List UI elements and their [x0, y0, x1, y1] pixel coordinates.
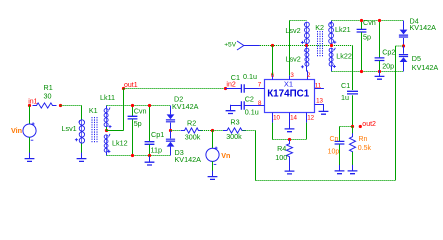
wire K2 upper bus [332, 20, 404, 22]
transformer K1 core [89, 106, 98, 142]
svg-text:3: 3 [290, 72, 294, 79]
svg-text:10p: 10p [328, 149, 340, 156]
ground at pin 13 [319, 105, 329, 114]
svg-text:KV142A: KV142A [172, 102, 199, 111]
svg-text:D5: D5 [412, 54, 421, 63]
svg-text:20p: 20p [382, 62, 394, 71]
capacitor Cp1 [145, 106, 165, 156]
varicap D5 [399, 46, 438, 72]
svg-text:10: 10 [273, 115, 280, 122]
ground under Vin [25, 153, 35, 162]
svg-text:7: 7 [258, 81, 262, 88]
wire to pin 3 [290, 21, 307, 76]
inductor Lsv2 lower [286, 46, 309, 76]
inductor Lk12 [104, 134, 127, 156]
node Cp1 top [148, 104, 151, 107]
svg-text:5p: 5p [134, 119, 142, 128]
pin 2 [307, 72, 311, 79]
wire Lsv1 to ground [81, 144, 83, 158]
svg-text:12: 12 [307, 115, 314, 122]
ground under Lsv1 [77, 153, 87, 162]
ground under Vn [208, 171, 218, 180]
svg-text:+5V: +5V [224, 41, 237, 48]
wire upper tank bus [107, 105, 171, 107]
svg-text:C1: C1 [231, 73, 240, 82]
capacitor C1 output [341, 46, 358, 127]
node D2 D3 junction [169, 129, 172, 132]
node pin6 tap [271, 44, 274, 47]
transformer K2 core [315, 23, 324, 57]
varicap D2 [166, 94, 199, 130]
wire R1 to Lsv1 [61, 106, 82, 120]
svg-text:KV142A: KV142A [412, 63, 439, 72]
svg-text:0.5k: 0.5k [358, 145, 372, 152]
svg-text:300k: 300k [185, 132, 201, 141]
svg-text:KV142A: KV142A [410, 23, 437, 32]
node out1 [122, 82, 138, 90]
svg-text:out2: out2 [362, 121, 376, 128]
svg-text:Lsv2: Lsv2 [286, 54, 301, 63]
pin 13 [315, 98, 324, 112]
ground under Rn [348, 165, 358, 174]
node K1 center tap [105, 127, 124, 132]
svg-text:X1: X1 [284, 81, 293, 88]
ground at C2 [226, 105, 236, 114]
pin 7 [258, 81, 265, 88]
pin 14 [290, 113, 298, 129]
node D4 D5 junction [402, 44, 405, 47]
svg-text:in1: in1 [28, 99, 37, 106]
svg-text:13: 13 [316, 98, 323, 105]
svg-text:Cvn: Cvn [363, 18, 376, 27]
svg-text:R3: R3 [230, 117, 239, 126]
resistor R1 [33, 83, 57, 108]
ground under Cp1 [145, 156, 155, 166]
ground under Cp2 [375, 70, 385, 79]
wire +5V bus [260, 45, 353, 47]
pin 6 [271, 72, 275, 79]
wire pin10 pin12 link [273, 139, 307, 141]
node K2 center tap [330, 44, 333, 47]
svg-text:Cn: Cn [330, 136, 339, 143]
svg-text:Cvn: Cvn [134, 107, 147, 116]
wire pin10 drop [272, 123, 274, 140]
inductor Lk11 [100, 93, 115, 128]
inductor Lsv1 [62, 120, 85, 144]
svg-text:1u: 1u [341, 93, 349, 102]
svg-text:5p: 5p [363, 33, 371, 42]
source Vn [206, 131, 230, 165]
node in1 [28, 99, 38, 108]
svg-text:11p: 11p [151, 145, 162, 154]
capacitor Cvn left [128, 106, 147, 156]
node R4 top [288, 138, 291, 141]
svg-text:out1: out1 [124, 82, 138, 89]
svg-text:Lk21: Lk21 [335, 25, 351, 34]
wire to pin 6 [272, 46, 274, 76]
wire Vin to ground [29, 137, 31, 157]
wire tuning frame [256, 46, 404, 181]
node R2 R3 junction [211, 129, 214, 132]
svg-text:Lsv2: Lsv2 [285, 26, 300, 35]
node out2 [351, 121, 376, 128]
svg-text:KV142A: KV142A [175, 155, 202, 164]
resistor R2 [171, 118, 213, 141]
svg-text:Lsv1: Lsv1 [62, 124, 77, 133]
svg-text:Lk12: Lk12 [112, 138, 128, 147]
source Vin [11, 106, 36, 141]
svg-text:R2: R2 [187, 118, 196, 127]
svg-text:0.1u: 0.1u [243, 72, 257, 81]
pin 8 [244, 100, 264, 107]
wire lower tank bus [107, 155, 171, 157]
capacitor Cp2 [375, 21, 396, 72]
node Cvn right bottom [360, 70, 363, 73]
inductor Lsv2 upper [285, 22, 309, 46]
node Cp1 bottom [148, 154, 151, 157]
wire Vn to ground [212, 161, 214, 176]
svg-text:0.1u: 0.1u [245, 108, 259, 117]
wire R3 drop [255, 131, 257, 181]
pin 11 [315, 82, 324, 89]
resistor R4 [275, 140, 292, 171]
varicap D4 [399, 16, 436, 46]
svg-text:Vn: Vn [221, 151, 230, 160]
port +5V [224, 41, 244, 50]
capacitor Cn [328, 127, 345, 171]
svg-text:30: 30 [44, 92, 52, 101]
node Cvn bottom [131, 154, 134, 157]
svg-text:Rn: Rn [359, 136, 368, 143]
inductor Lk21 [329, 21, 351, 44]
svg-text:Cp1: Cp1 [151, 130, 164, 139]
wire out1 vertical [123, 89, 125, 131]
svg-text:Lk11: Lk11 [100, 93, 115, 102]
wire +5V lead [244, 45, 260, 47]
svg-text:8: 8 [258, 100, 262, 107]
node in2 [224, 81, 236, 90]
pin 3 [290, 72, 295, 79]
svg-text:14: 14 [290, 115, 297, 122]
node Cvn top [131, 104, 134, 107]
node Cvn right top [360, 19, 363, 22]
resistor Rn [350, 127, 372, 171]
inductor Lk22 [329, 48, 352, 72]
ground under Cn [335, 165, 345, 174]
svg-text:К174ПС1: К174ПС1 [267, 88, 309, 99]
node Cp2 bottom [378, 70, 381, 73]
svg-text:100: 100 [275, 153, 287, 162]
svg-text:C2: C2 [245, 94, 254, 103]
svg-text:K1: K1 [89, 106, 98, 115]
resistor R3 [213, 117, 256, 140]
wire out2 branch [340, 126, 353, 128]
wire K2 lower bus [332, 71, 404, 73]
node Lsv2 tap [305, 44, 308, 47]
ground at pin 14 [285, 123, 295, 132]
capacitor C1 input [226, 72, 260, 93]
node R1 right [59, 104, 62, 107]
svg-text:Lk22: Lk22 [336, 52, 352, 61]
pin 10 [273, 113, 281, 123]
svg-text:Cp2: Cp2 [382, 47, 395, 56]
capacitor C2 [231, 94, 259, 116]
capacitor Cvn right [357, 18, 376, 72]
svg-text:in2: in2 [226, 81, 235, 88]
wire out1 to in2 [124, 88, 226, 90]
wire pin12 drop [306, 123, 308, 140]
svg-text:K2: K2 [315, 23, 324, 32]
ground under R4 [285, 165, 295, 174]
svg-text:C1: C1 [341, 81, 350, 90]
svg-text:R4: R4 [277, 144, 286, 153]
svg-text:300k: 300k [226, 132, 242, 141]
pin 12 [307, 113, 315, 123]
varicap D3 [166, 131, 201, 165]
svg-text:11: 11 [315, 82, 322, 89]
op-amp U1 X1 K174PS1 [265, 80, 315, 113]
node Cp2 top [378, 19, 381, 22]
svg-text:Vin: Vin [11, 126, 22, 135]
